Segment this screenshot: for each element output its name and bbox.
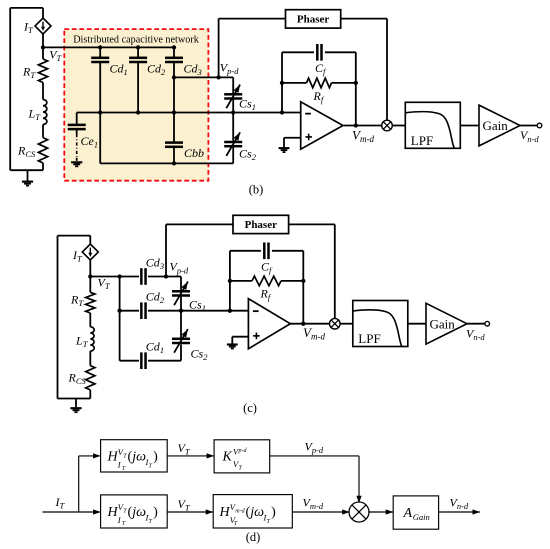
svg-text:Gain: Gain [483, 118, 509, 133]
svg-text:(b): (b) [249, 183, 264, 197]
svg-text:Cbb: Cbb [184, 146, 204, 160]
svg-text:Phaser: Phaser [245, 219, 278, 231]
svg-text:Phaser: Phaser [297, 14, 330, 26]
svg-text:(c): (c) [243, 401, 257, 415]
svg-text:Distributed capacitive network: Distributed capacitive network [73, 34, 200, 45]
svg-text:LPF: LPF [411, 133, 433, 148]
svg-text:LPF: LPF [358, 331, 380, 346]
svg-text:Gain: Gain [430, 316, 456, 331]
svg-text:(d): (d) [246, 530, 261, 544]
